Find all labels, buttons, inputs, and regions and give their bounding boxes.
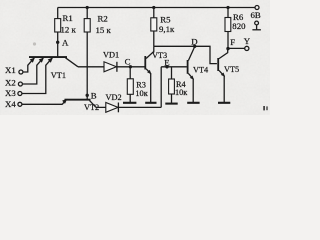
svg-text:10к: 10к bbox=[175, 88, 188, 97]
svg-text:VT4: VT4 bbox=[193, 65, 209, 74]
svg-text:Y: Y bbox=[244, 36, 251, 46]
svg-text:E: E bbox=[164, 57, 169, 67]
VT2 emitter bbox=[62, 100, 66, 104]
ground (VT5) bbox=[218, 102, 230, 104]
svg-text:10к: 10к bbox=[135, 89, 148, 98]
VT1 emitter 2 bbox=[37, 58, 43, 66]
VT4 emitter bbox=[188, 73, 193, 102]
speck bottom right bbox=[263, 106, 265, 110]
VT1 emitter 3 bbox=[46, 58, 52, 66]
node F bbox=[226, 47, 229, 50]
svg-text:VD1: VD1 bbox=[103, 51, 119, 60]
svg-text:X3: X3 bbox=[5, 88, 16, 98]
svg-text:X2: X2 bbox=[5, 77, 16, 87]
terminal symbol under 6B bbox=[252, 21, 261, 30]
svg-text:D: D bbox=[191, 36, 197, 46]
resistor R5 bbox=[152, 6, 155, 9]
svg-text:15 к: 15 к bbox=[96, 25, 112, 35]
node E bbox=[161, 66, 187, 68]
svg-text:R3: R3 bbox=[136, 80, 146, 89]
resistor R3 bbox=[129, 67, 131, 79]
diode VD2 bbox=[96, 106, 161, 108]
svg-text:R2: R2 bbox=[98, 14, 108, 24]
resistor R6 bbox=[226, 6, 229, 9]
terminal X3 bbox=[18, 92, 22, 96]
svg-text:R5: R5 bbox=[160, 14, 171, 24]
svg-text:VT5: VT5 bbox=[224, 65, 239, 74]
VT1 collector wire bbox=[66, 58, 79, 67]
VT4 collector bbox=[188, 47, 194, 61]
svg-text:9,1к: 9,1к bbox=[159, 24, 175, 34]
transistor VT4 bbox=[187, 60, 189, 74]
svg-text:VT1: VT1 bbox=[51, 71, 66, 80]
svg-text:F: F bbox=[230, 37, 235, 47]
transistor VT3 bbox=[144, 56, 146, 70]
diode VD1 bbox=[78, 66, 145, 68]
node B bbox=[86, 94, 89, 97]
wire D line bbox=[154, 46, 217, 63]
VT1 emitter 1 bbox=[28, 58, 34, 66]
node D bbox=[193, 45, 196, 48]
svg-text:6B: 6B bbox=[251, 10, 261, 20]
svg-text:X4: X4 bbox=[5, 99, 16, 109]
terminal 6B bbox=[255, 6, 259, 10]
power rail +6V bbox=[58, 7, 256, 9]
wire VD2 to node E bbox=[160, 67, 162, 108]
ground (R4) bbox=[165, 103, 177, 105]
wire output bbox=[228, 47, 245, 49]
wire X4 to VT2 emitter bbox=[22, 103, 63, 105]
ground (VT3) bbox=[145, 102, 156, 104]
svg-text:820: 820 bbox=[232, 21, 246, 31]
svg-text:A: A bbox=[62, 38, 69, 48]
terminal X1 bbox=[19, 70, 23, 74]
svg-text:R1: R1 bbox=[63, 13, 73, 23]
resistor R2 bbox=[86, 6, 89, 9]
svg-text:12 к: 12 к bbox=[61, 25, 77, 35]
node C bbox=[129, 65, 132, 68]
transistor VT5 bbox=[217, 58, 219, 71]
transistor VT1 (multi-emitter) bbox=[29, 56, 67, 58]
ground (R3) bbox=[123, 102, 136, 104]
VT3 collector bbox=[146, 46, 154, 58]
ground (VT4) bbox=[187, 102, 199, 104]
resistor R4 bbox=[171, 67, 173, 79]
VT5 collector bbox=[219, 48, 228, 58]
terminal Y bbox=[245, 46, 249, 50]
svg-text:B: B bbox=[91, 91, 97, 101]
VT5 emitter bbox=[219, 70, 224, 102]
svg-text:VD2: VD2 bbox=[106, 93, 122, 102]
speck bbox=[33, 42, 36, 45]
terminal X2 bbox=[18, 82, 22, 86]
resistor R1 bbox=[57, 8, 59, 20]
svg-text:X1: X1 bbox=[5, 65, 16, 75]
terminal X4 bbox=[18, 102, 22, 106]
VT2 collector bbox=[90, 100, 97, 107]
VT3 emitter bbox=[146, 69, 151, 102]
svg-text:C: C bbox=[125, 57, 131, 67]
node A bbox=[56, 41, 59, 44]
transistor VT2 bbox=[65, 99, 91, 101]
